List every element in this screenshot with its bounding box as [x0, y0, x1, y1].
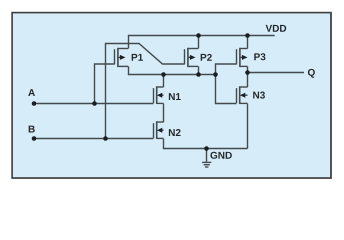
- node junction GND: [204, 146, 209, 151]
- label N1: [169, 93, 181, 100]
- node junction VDD-P3: [245, 33, 250, 38]
- wire P3 source riser: [247, 36, 249, 49]
- transistor N1: [154, 86, 164, 104]
- wire N2 source riser + GND rail: [164, 139, 248, 149]
- wire A to P1 gate: [95, 64, 115, 104]
- node terminal B: [32, 136, 37, 141]
- label P3: [254, 53, 265, 60]
- label N3: [253, 92, 265, 99]
- node junction rail-P2: [196, 72, 201, 77]
- node output node: [245, 70, 250, 75]
- label N2: [169, 129, 181, 136]
- wire B to P2 gate: [106, 44, 185, 139]
- node junction rail-N1: [161, 72, 166, 77]
- wire P2 source riser: [198, 36, 200, 49]
- label P1: [132, 54, 143, 61]
- label VDD: [266, 25, 287, 32]
- transistor N3: [237, 86, 248, 104]
- wire N1 drain riser: [163, 75, 165, 88]
- ground symbol: [202, 162, 211, 167]
- wire GND stem: [206, 149, 208, 162]
- wire NAND output rail: [129, 66, 216, 74]
- node junction VDD-P2: [196, 33, 201, 38]
- wire output vertical: [247, 66, 249, 87]
- wire output Q line: [248, 72, 305, 74]
- transistor P3: [237, 48, 248, 67]
- transistor P1: [115, 48, 129, 67]
- border frame: [12, 13, 331, 178]
- wire N1-N2 link: [163, 104, 165, 123]
- wire P2 drain riser: [198, 66, 200, 74]
- label GND: [210, 152, 231, 159]
- node terminal A: [32, 101, 37, 106]
- node junction rail-feed: [213, 72, 218, 77]
- label Q: [308, 69, 315, 78]
- wire N3 source riser: [247, 104, 249, 149]
- label A: [28, 89, 35, 96]
- label P2: [201, 54, 212, 61]
- wire input A line: [34, 103, 154, 105]
- wire VDD rail: [129, 36, 275, 49]
- node junction B riser: [103, 136, 108, 141]
- wire input B line: [34, 138, 154, 140]
- label B: [29, 126, 35, 133]
- wire NAND out to P3/N3 gates: [216, 64, 237, 104]
- node junction A-P1: [92, 101, 97, 106]
- transistor N2: [154, 121, 164, 139]
- transistor P2: [185, 48, 199, 67]
